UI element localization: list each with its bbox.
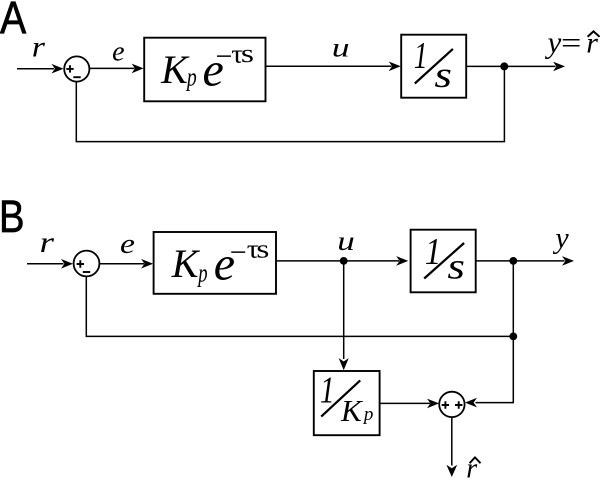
arrowhead output y (B)	[562, 256, 574, 266]
arrowhead into summer S3 left (B)	[427, 399, 439, 409]
wire feedback to summer S2 (B)	[86, 276, 513, 336]
block integrator 1/s (A)	[401, 35, 466, 98]
minus sign in summer S1 (A)	[73, 76, 80, 78]
svg-text:u: u	[332, 32, 350, 62]
block integrator 1/s (B)	[411, 230, 476, 293]
svg-text:=: =	[559, 26, 583, 59]
plus sign in summer S2 (B)	[77, 260, 84, 267]
value label 1/Kp (B)	[320, 370, 374, 428]
svg-text:u: u	[337, 226, 355, 256]
wire summer S3 down to r-hat output (B)	[451, 417, 453, 465]
svg-text:s: s	[256, 234, 269, 263]
summing junction S3 (B)	[439, 392, 464, 417]
wire input r to summer (A)	[17, 68, 54, 70]
svg-text:K: K	[160, 47, 190, 92]
wire block 1/Kp to summer S3 (B)	[380, 402, 430, 404]
arrowhead into integrator (A)	[389, 62, 401, 72]
value label Kp e^-tau s (A)	[160, 39, 254, 97]
plus sign in summer S1 (A)	[66, 65, 73, 72]
wire block Kp to integrator (A)	[266, 65, 392, 67]
svg-text:−: −	[230, 236, 247, 269]
arrowhead into summer (B)	[61, 259, 73, 269]
node dot output y (B)	[509, 257, 517, 265]
svg-text:1: 1	[414, 35, 428, 77]
node dot u (B)	[340, 257, 348, 265]
wire input r to summer (B)	[27, 263, 64, 265]
svg-text:e: e	[112, 37, 124, 68]
hat accent over r (B)	[470, 457, 481, 463]
arrowhead into integrator (B)	[396, 256, 408, 266]
wire integrator to output y (A)	[466, 65, 555, 67]
svg-text:r: r	[32, 30, 46, 64]
svg-text:−: −	[216, 40, 233, 73]
svg-text:B: B	[0, 191, 25, 242]
arrowhead output y (A)	[553, 62, 565, 72]
svg-text:p: p	[185, 62, 197, 91]
plus sign right in summer S3 (B)	[455, 401, 462, 408]
wire output node down to summer S3 (B)	[476, 261, 514, 403]
svg-text:K: K	[171, 241, 201, 286]
svg-text:s: s	[241, 39, 254, 68]
wire block Kp to integrator (B)	[276, 260, 399, 262]
svg-text:p: p	[197, 258, 208, 287]
hat accent over r (A)	[588, 31, 600, 36]
wire summer to block Kp (A)	[89, 67, 134, 69]
arrowhead into summer (A)	[52, 64, 64, 74]
value label Kp e^-tau s (B)	[171, 234, 270, 290]
wire integrator to output y (B)	[476, 260, 565, 262]
fraction slash in 1/Kp (B)	[321, 380, 360, 416]
arrowhead output r-hat (B)	[446, 465, 457, 477]
fraction slash in 1/s (A)	[415, 49, 453, 84]
wire u node down to block 1/Kp (B)	[343, 261, 345, 359]
svg-text:y: y	[552, 221, 569, 254]
svg-text:e: e	[120, 228, 135, 260]
svg-text:K: K	[340, 393, 364, 428]
block Kp e^-tau s (A)	[144, 38, 265, 102]
plus sign left in summer S3 (B)	[442, 401, 449, 408]
svg-text:A: A	[0, 0, 27, 44]
value label 1/s (B)	[425, 230, 465, 287]
block 1/Kp (B)	[314, 371, 380, 435]
summing junction S2 (B)	[74, 251, 100, 277]
node dot feedback junction (B)	[509, 333, 517, 341]
svg-text:p: p	[362, 404, 374, 425]
minus sign in summer S2 (B)	[83, 271, 90, 273]
svg-text:s: s	[434, 54, 452, 95]
block Kp e^-tau s (B)	[154, 232, 276, 294]
fraction slash in 1/s (B)	[424, 243, 464, 279]
value label 1/s (A)	[414, 35, 452, 95]
arrowhead into block Kp (A)	[132, 64, 144, 74]
svg-text:r: r	[40, 226, 55, 259]
arrowhead into block Kp (B)	[141, 259, 153, 269]
wire summer to block Kp (B)	[99, 263, 144, 265]
arrowhead into summer S3 right (B)	[465, 398, 477, 408]
node dot output (A)	[500, 62, 508, 70]
wire feedback loop (A)	[76, 66, 504, 141]
summing junction S1 (A)	[64, 56, 89, 81]
arrowhead into block 1/Kp (B)	[339, 358, 349, 370]
